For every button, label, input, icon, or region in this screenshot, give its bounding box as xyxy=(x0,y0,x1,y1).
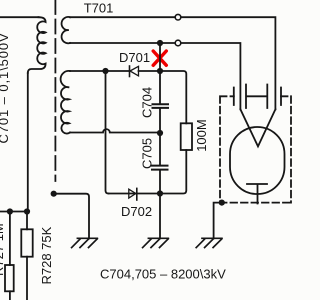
wire: D701 node to 100M resistor top xyxy=(160,71,186,123)
resistor (label off-image) xyxy=(5,265,14,291)
ground: secondary shield xyxy=(72,238,98,247)
wire: CRT aquadag to ground xyxy=(214,203,222,239)
svg-text:C704,705 – 8200\3kV: C704,705 – 8200\3kV xyxy=(100,267,226,282)
wire: resistor bottom to edge xyxy=(9,291,11,300)
wire: drop to lower-left resistor xyxy=(9,212,11,266)
svg-text:R728 75K: R728 75K xyxy=(39,226,54,284)
node: core ground xyxy=(51,191,57,197)
CRT dashed envelope box xyxy=(220,96,291,202)
capacitor C705 xyxy=(152,166,168,170)
terminal circle top xyxy=(175,14,181,20)
wire: secondary second line to right corner, down to CRT xyxy=(70,43,240,109)
transformer T701 primary winding xyxy=(28,17,46,73)
fault mark: red X xyxy=(153,51,166,65)
wire: lower-left node horizontal xyxy=(0,211,28,213)
transformer T701 core (dashed) xyxy=(54,0,56,181)
svg-text:C701 – 0,1\500V: C701 – 0,1\500V xyxy=(0,32,11,143)
node: C704/C705 midpoint xyxy=(157,130,163,136)
winding: T701 secondary lower (3 turns) xyxy=(61,71,70,134)
winding: T701 secondary top (to terminals) xyxy=(62,17,70,43)
svg-text:T701: T701 xyxy=(84,0,114,15)
ground: CRT xyxy=(196,238,222,247)
diode D702 (cathode bar right) xyxy=(129,189,136,198)
spark gap electrode plates on CRT box xyxy=(234,85,281,109)
svg-text:100M: 100M xyxy=(194,119,209,152)
capacitor C704 xyxy=(153,104,169,108)
wire: node A down left branch to D702 line xyxy=(106,71,109,194)
CRT cathode xyxy=(247,184,267,204)
node: D702 output xyxy=(157,190,163,196)
wire: lower winding top line to node A xyxy=(70,70,106,72)
node: lower-left 1 xyxy=(7,208,13,214)
wire: X-marked link from terminal line down to D701 node xyxy=(159,43,161,71)
node: D701 cathode rail xyxy=(157,68,163,74)
svg-text:C705: C705 xyxy=(139,138,154,169)
CRT bulb xyxy=(230,127,285,194)
svg-text:D702: D702 xyxy=(121,204,152,219)
CRT gun wires forming V xyxy=(240,109,275,146)
wire: secondary top line to right corner, down to CRT xyxy=(70,17,275,109)
wire: main HV rail x=160 down through C704/C705 xyxy=(159,71,161,238)
resistor 100M xyxy=(181,123,192,150)
svg-text:C704: C704 xyxy=(139,87,154,118)
wire: drop to R728 xyxy=(26,212,28,230)
node A: winding top / D701 xyxy=(102,68,108,74)
resistor R728 xyxy=(21,229,32,256)
ground: HV rail xyxy=(143,238,169,247)
wire: primary bottom down to lower-left node xyxy=(27,73,29,212)
wire: R728 bottom to edge xyxy=(26,257,28,300)
wire: D702 line xyxy=(109,193,161,195)
svg-text:D701: D701 xyxy=(119,50,150,65)
wire: top feed line into primary xyxy=(0,16,39,18)
node: lower-left 2 xyxy=(24,208,30,214)
svg-text:R727 1M: R727 1M xyxy=(0,223,6,276)
wire: lower winding bottom line to C704/C705 midpoint with hop over x=106 xyxy=(70,129,160,132)
wire: core ground link xyxy=(54,194,89,239)
terminal circle second xyxy=(175,40,181,46)
diode D701 (cathode bar left) xyxy=(106,70,161,72)
node: secondary line / X wire xyxy=(157,40,163,46)
node: CRT box corner xyxy=(219,200,225,206)
wire: 100M bottom to D702 output node xyxy=(160,150,186,194)
